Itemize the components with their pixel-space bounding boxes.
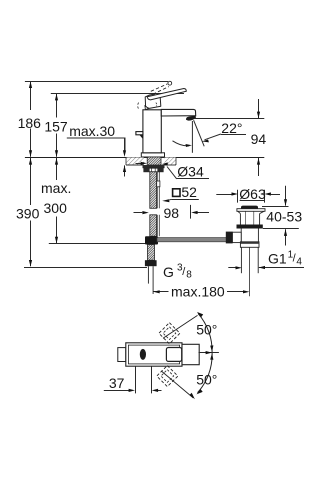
svg-text:300: 300: [44, 200, 68, 216]
label square52: [162, 184, 199, 202]
svg-text:G: G: [163, 264, 174, 280]
plan view cartridge square: [166, 348, 181, 362]
svg-text:98: 98: [164, 205, 180, 221]
label G1-1/4: [268, 250, 302, 268]
angle arc upper: [197, 312, 214, 352]
aerator: [186, 115, 196, 120]
angle arc 22: [173, 141, 192, 147]
dimension 37: [104, 367, 162, 394]
plan view spout tab: [118, 348, 126, 362]
pull-rod knob tab on body: [136, 132, 143, 139]
svg-text:max.: max.: [41, 180, 71, 196]
horizontal linkage rod: [157, 238, 227, 242]
stream vertical reference line: [191, 121, 193, 153]
svg-text:Ø63: Ø63: [239, 186, 266, 202]
handle pivot cube: [138, 94, 161, 110]
label 22deg: [202, 120, 246, 143]
svg-text:52: 52: [181, 184, 197, 200]
svg-text:max.30: max.30: [69, 123, 115, 139]
drain seal ring: [237, 225, 263, 229]
pull rod tee clamp: [145, 236, 158, 244]
svg-text:390: 390: [16, 206, 40, 222]
extension line 157 top: [51, 93, 184, 95]
svg-text:Ø34: Ø34: [177, 164, 204, 180]
svg-text:50°: 50°: [196, 371, 217, 387]
svg-text:50°: 50°: [196, 322, 217, 338]
svg-text:max.180: max.180: [171, 284, 225, 300]
svg-text:37: 37: [109, 375, 125, 391]
dimension arrows dia34: [136, 162, 168, 166]
dimension 186 vertical line: [18, 81, 42, 156]
drain flange chamfer: [238, 211, 264, 213]
dimension 94: [251, 99, 267, 176]
faucet spout: [161, 109, 195, 116]
shank through counter: [147, 157, 161, 165]
raised handle dashed: [151, 81, 172, 94]
plan view body: [126, 343, 182, 366]
label G3/8: [163, 263, 192, 281]
svg-text:157: 157: [44, 118, 68, 134]
dimension 390 vertical line: [16, 158, 40, 267]
supply hose upper segment: [150, 172, 160, 209]
hose end knob G3/8: [145, 260, 157, 266]
dimension 157 vertical line: [44, 94, 68, 157]
handle axis line upper: [163, 315, 198, 338]
drain side port: [226, 232, 241, 244]
pull rod lower segment: [148, 245, 155, 261]
svg-text:40-53: 40-53: [266, 209, 302, 225]
drain plug cap: [241, 206, 258, 209]
drain upper cylinder: [240, 211, 259, 224]
angle arc lower: [196, 353, 213, 395]
mounting nut: [143, 165, 165, 172]
stream slanted line: [194, 120, 205, 146]
dimension arrows G1-1/4: [228, 266, 304, 270]
rotated handle diamond lower: [157, 366, 178, 387]
dimension max.30: [67, 123, 126, 176]
extension line 390 bottom: [24, 267, 147, 269]
faucet body: [143, 110, 161, 153]
supply hose lower segment: [150, 215, 160, 236]
drain mid cylinder: [241, 229, 258, 242]
extension line max300 bottom: [49, 243, 147, 245]
handle axis line lower: [161, 371, 195, 399]
faucet base plate: [141, 153, 164, 157]
drain tailpipe: [241, 247, 258, 296]
dimension 40-53: [262, 186, 302, 246]
counter cross-section left: [126, 157, 144, 165]
dimension 98: [134, 205, 210, 221]
extension line 186 top: [25, 81, 168, 83]
svg-text:94: 94: [251, 131, 267, 147]
counter cross-section right: [165, 157, 177, 165]
plan view handle: [182, 344, 199, 364]
label dia34: [167, 164, 209, 180]
svg-text:G1: G1: [268, 251, 287, 267]
dimension max.180: [153, 284, 249, 300]
handle center dimension line: [199, 351, 219, 354]
handle lever: [147, 89, 186, 100]
svg-text:4: 4: [296, 257, 302, 268]
rotated handle diamond upper: [159, 323, 180, 344]
drain locknut: [240, 242, 259, 248]
label dia63: [216, 186, 280, 203]
svg-text:22°: 22°: [221, 120, 242, 136]
counter top line: [25, 157, 264, 159]
extension line spout outlet: [194, 118, 264, 120]
svg-text:186: 186: [18, 115, 42, 131]
plan view aerator: [140, 349, 146, 360]
svg-text:8: 8: [186, 270, 192, 281]
drain flange: [237, 209, 265, 212]
dimension max.300 vertical line: [41, 158, 71, 243]
hose end pipe: [148, 266, 153, 294]
